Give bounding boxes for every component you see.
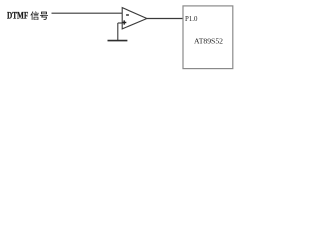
wire to ground <box>117 23 119 40</box>
svg-text:P1.0: P1.0 <box>185 14 198 23</box>
IC U2 AT89S52 box <box>183 6 233 69</box>
node DTMF signal label <box>7 11 48 22</box>
svg-text:DTMF: DTMF <box>7 11 28 22</box>
svg-text:AT89S52: AT89S52 <box>194 36 223 45</box>
wire op-amp output to P1.0 <box>147 18 183 20</box>
wire noninverting input stub <box>118 22 123 24</box>
wire input to inverting input <box>52 12 123 14</box>
op-amp U1 <box>122 8 147 29</box>
ground <box>108 40 128 42</box>
